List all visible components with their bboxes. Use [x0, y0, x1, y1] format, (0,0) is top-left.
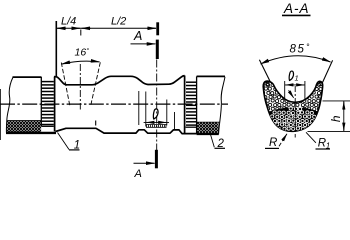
svg-text:1: 1: [74, 139, 80, 151]
svg-text:1: 1: [326, 142, 330, 151]
svg-text:A: A: [134, 168, 142, 179]
svg-text:2: 2: [217, 138, 225, 150]
svg-text:h: h: [329, 115, 343, 122]
svg-text:L/4: L/4: [61, 16, 76, 28]
svg-text:R: R: [269, 137, 277, 149]
svg-text:A-A: A-A: [283, 1, 310, 16]
svg-text:1: 1: [295, 74, 299, 83]
svg-text:L/2: L/2: [111, 16, 126, 28]
svg-text:A: A: [133, 29, 142, 43]
